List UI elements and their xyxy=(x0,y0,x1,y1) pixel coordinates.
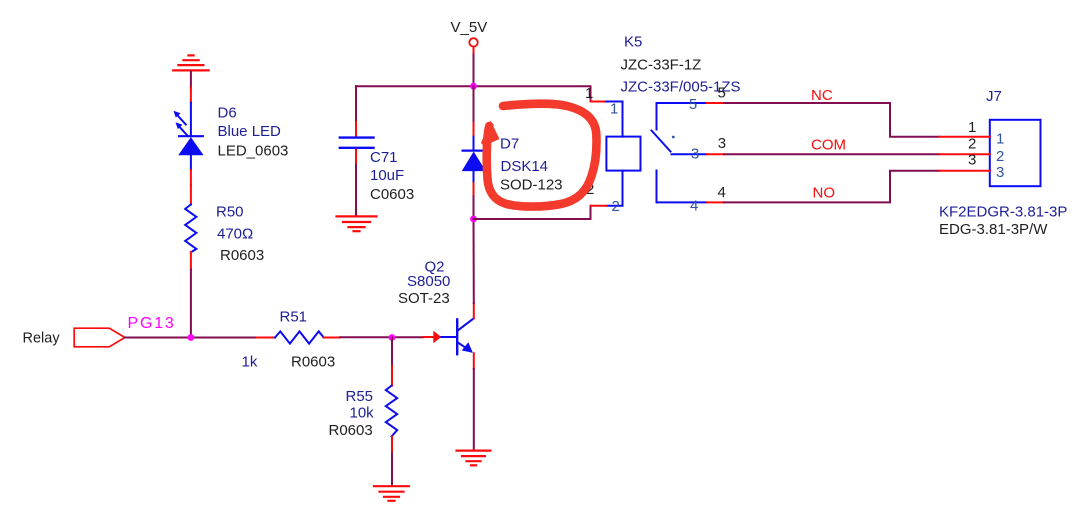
svg-text:C0603: C0603 xyxy=(370,186,414,203)
svg-text:EDG-3.81-3P/W: EDG-3.81-3P/W xyxy=(939,221,1048,238)
wire: NC net xyxy=(724,103,939,137)
svg-text:470Ω: 470Ω xyxy=(217,226,253,243)
ground under C71 xyxy=(337,216,377,231)
svg-text:R55: R55 xyxy=(346,388,374,405)
svg-text:D7: D7 xyxy=(500,135,519,152)
node V_5V junction xyxy=(470,83,477,90)
J7 pin 3 xyxy=(939,170,989,172)
svg-text:3: 3 xyxy=(691,146,699,163)
svg-text:R0603: R0603 xyxy=(220,247,264,264)
resistor R50 xyxy=(185,185,196,270)
resistor R51 xyxy=(257,331,340,343)
svg-text:2: 2 xyxy=(968,135,976,152)
relay K5 contact NO pole xyxy=(657,171,725,203)
ground under R55 xyxy=(374,486,409,501)
svg-text:3: 3 xyxy=(968,152,976,169)
svg-text:R0603: R0603 xyxy=(329,422,373,439)
svg-text:3: 3 xyxy=(718,135,726,152)
wire: C71 top xyxy=(355,86,357,122)
svg-text:5: 5 xyxy=(689,96,697,113)
relay K5 coil xyxy=(591,102,641,206)
svg-text:J7: J7 xyxy=(986,88,1002,105)
LED D6 xyxy=(174,88,203,186)
wire: R55 to ground xyxy=(391,454,393,486)
svg-text:S8050: S8050 xyxy=(407,273,450,290)
capacitor C71 xyxy=(340,122,374,165)
wire: Q2 emitter to ground xyxy=(473,369,475,450)
svg-text:Relay: Relay xyxy=(23,331,61,347)
power ground (flipped) above D6 xyxy=(173,55,208,70)
wire: R51 to Q2 base xyxy=(340,336,423,338)
wire: V_5V down to node xyxy=(473,55,475,87)
wire: COM net xyxy=(724,153,939,155)
svg-text:NC: NC xyxy=(811,87,833,104)
svg-text:1k: 1k xyxy=(242,354,258,371)
power port V_5V xyxy=(469,38,477,54)
svg-text:SOT-23: SOT-23 xyxy=(398,290,450,307)
svg-text:V_5V: V_5V xyxy=(451,19,488,36)
svg-text:DSK14: DSK14 xyxy=(501,158,549,175)
svg-text:PG13: PG13 xyxy=(128,315,176,332)
svg-text:4: 4 xyxy=(690,197,698,214)
wire: top rail left to C71 xyxy=(356,85,474,87)
svg-text:2: 2 xyxy=(612,198,620,215)
transistor Q2 xyxy=(423,303,474,369)
diode D7 xyxy=(463,86,485,219)
node D7 bottom junction xyxy=(470,216,477,223)
svg-text:D6: D6 xyxy=(218,105,237,122)
port Relay xyxy=(74,328,125,347)
wire: C71 to ground xyxy=(355,165,357,216)
svg-text:1: 1 xyxy=(610,100,618,117)
svg-text:R51: R51 xyxy=(280,309,308,326)
svg-text:1: 1 xyxy=(585,85,593,102)
svg-text:1: 1 xyxy=(968,119,976,136)
svg-text:K5: K5 xyxy=(624,34,642,51)
svg-text:Blue LED: Blue LED xyxy=(218,123,282,140)
relay K5 pivot dot xyxy=(672,136,675,139)
svg-text:SOD-123: SOD-123 xyxy=(500,177,563,194)
wire: NO net xyxy=(724,171,939,203)
wire: node to K5 pin2 xyxy=(474,206,591,219)
relay K5 armature xyxy=(652,131,671,152)
svg-text:10k: 10k xyxy=(350,405,375,422)
svg-text:C71: C71 xyxy=(370,149,398,166)
svg-text:3: 3 xyxy=(996,164,1004,181)
svg-text:KF2EDGR-3.81-3P: KF2EDGR-3.81-3P xyxy=(939,204,1067,221)
svg-text:R50: R50 xyxy=(216,204,244,221)
wire: R50 to PG13 node xyxy=(190,270,192,338)
node PG13 junction xyxy=(188,334,195,341)
svg-text:JZC-33F-1Z: JZC-33F-1Z xyxy=(621,57,702,74)
svg-text:1: 1 xyxy=(996,131,1004,148)
connector J7 xyxy=(990,120,1041,186)
svg-text:R0603: R0603 xyxy=(291,354,335,371)
ground under Q2 xyxy=(457,451,491,466)
J7 pin 2 xyxy=(939,153,989,155)
relay K5 contact COM pole xyxy=(672,153,725,155)
wire: ground stem to D6 xyxy=(190,71,192,87)
node R55 junction xyxy=(389,334,396,341)
J7 pin 1 xyxy=(939,136,989,138)
wire: Q2 collector up to node xyxy=(473,219,475,303)
svg-text:5: 5 xyxy=(718,85,726,102)
wire: top rail right to K5 pin1 xyxy=(474,86,591,101)
relay K5 contact NC pole xyxy=(657,103,725,130)
svg-text:10uF: 10uF xyxy=(370,167,404,184)
red annotation arrowhead xyxy=(481,121,500,147)
red hand-drawn circle annotation around D7 xyxy=(487,104,597,207)
wire: junction down to R55 xyxy=(391,338,393,367)
svg-text:2: 2 xyxy=(996,148,1004,165)
svg-text:COM: COM xyxy=(811,137,846,154)
svg-text:4: 4 xyxy=(718,184,726,201)
resistor R55 xyxy=(386,366,397,454)
wire: port to R51 xyxy=(125,337,257,339)
svg-text:NO: NO xyxy=(813,185,836,202)
svg-text:LED_0603: LED_0603 xyxy=(218,143,289,160)
